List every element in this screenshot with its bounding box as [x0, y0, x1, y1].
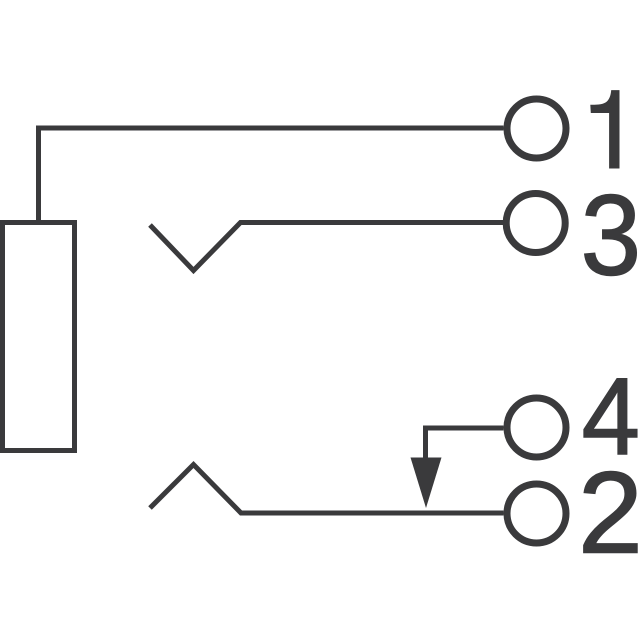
terminal circle pin 1	[507, 99, 566, 158]
svg-text:2: 2	[578, 448, 640, 578]
terminal circle pin 3	[506, 194, 565, 253]
pin label 3	[581, 171, 640, 299]
terminal circle pin 2	[507, 484, 566, 543]
wire: pin 4 elbow to arrow	[426, 428, 504, 458]
pin label 1	[590, 90, 619, 168]
pin label 2	[578, 448, 640, 578]
switch contact arm (tip, normally closed)	[150, 223, 504, 271]
wire: pin 1 to jack body	[39, 128, 504, 222]
jack body J1 (sleeve rectangle)	[3, 223, 75, 451]
arrowhead pointing down onto pin-2 wire	[411, 458, 442, 509]
terminal circle pin 4	[507, 398, 566, 457]
pin label 4	[582, 355, 640, 478]
svg-text:3: 3	[581, 171, 640, 299]
switch contact arm (ring, normally closed)	[150, 465, 504, 514]
